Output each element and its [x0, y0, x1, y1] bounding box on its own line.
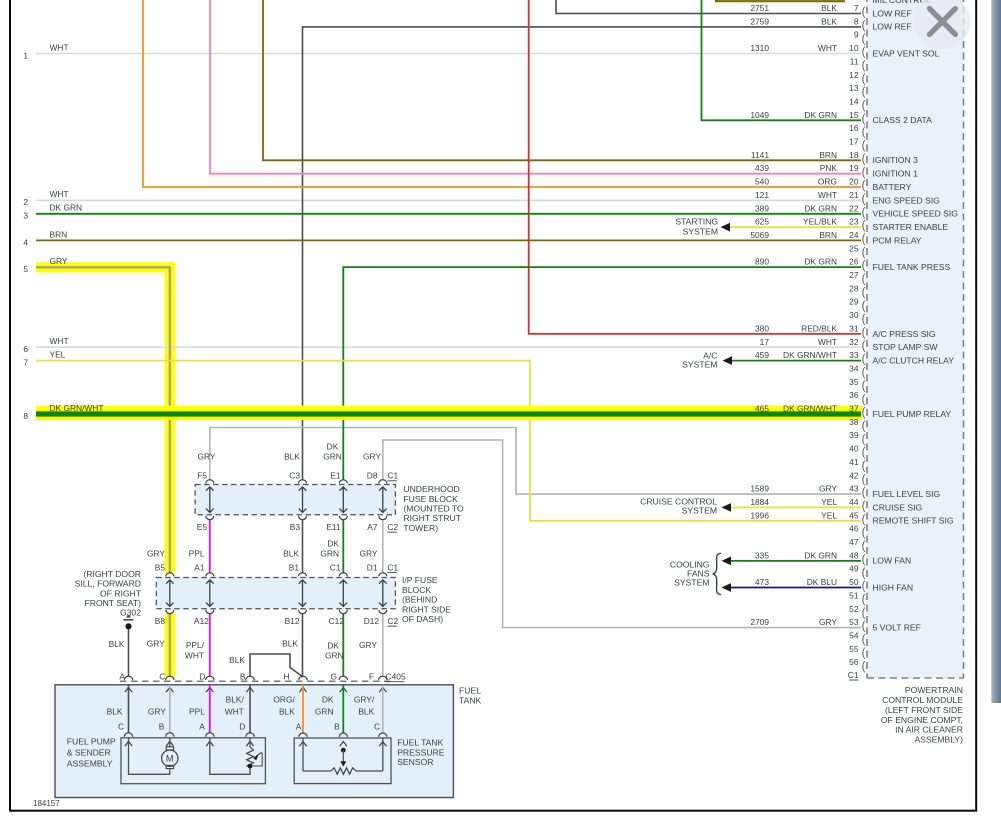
- svg-text:GRY: GRY: [148, 707, 166, 717]
- svg-text:20: 20: [849, 177, 859, 187]
- svg-text:459: 459: [755, 350, 769, 360]
- svg-text:B: B: [240, 672, 246, 682]
- svg-text:IN AIR CLEANER: IN AIR CLEANER: [895, 725, 963, 735]
- svg-text:FUEL LEVEL SIG: FUEL LEVEL SIG: [873, 489, 941, 499]
- svg-text:OF RIGHT: OF RIGHT: [100, 588, 142, 598]
- svg-text:YEL: YEL: [50, 349, 66, 359]
- svg-text:C1: C1: [387, 471, 398, 481]
- svg-text:5: 5: [23, 264, 28, 274]
- svg-text:(MOUNTED TO: (MOUNTED TO: [403, 504, 464, 514]
- svg-text:(: (: [862, 87, 866, 99]
- svg-text:(LEFT FRONT SIDE: (LEFT FRONT SIDE: [885, 705, 963, 715]
- svg-text:OF DASH): OF DASH): [402, 614, 443, 624]
- svg-text:ENG SPEED SIG: ENG SPEED SIG: [873, 195, 941, 205]
- svg-text:STARTING: STARTING: [675, 217, 718, 227]
- svg-text:(: (: [862, 581, 866, 593]
- svg-text:(: (: [862, 180, 866, 192]
- svg-text:B: B: [159, 722, 165, 732]
- svg-text:55: 55: [849, 644, 859, 654]
- svg-text:50: 50: [849, 577, 859, 587]
- svg-text:27: 27: [849, 270, 859, 280]
- svg-text:(: (: [862, 407, 866, 419]
- svg-text:WHT: WHT: [225, 707, 244, 717]
- svg-text:24: 24: [849, 230, 859, 240]
- svg-text:GRY: GRY: [198, 452, 216, 462]
- svg-text:BLK: BLK: [283, 549, 299, 559]
- svg-text:473: 473: [755, 577, 769, 587]
- svg-text:(: (: [862, 234, 866, 246]
- svg-text:439: 439: [755, 163, 769, 173]
- svg-text:CLASS 2 DATA: CLASS 2 DATA: [873, 115, 933, 125]
- svg-text:BRN: BRN: [50, 229, 68, 239]
- svg-text:BLK: BLK: [821, 3, 837, 13]
- svg-text:F: F: [369, 672, 374, 682]
- svg-text:BLK: BLK: [229, 655, 245, 665]
- svg-text:(: (: [862, 501, 866, 513]
- svg-text:(: (: [862, 220, 866, 232]
- svg-text:(: (: [862, 47, 866, 59]
- svg-text:E5: E5: [197, 522, 208, 532]
- svg-text:DK GRN: DK GRN: [804, 203, 837, 213]
- svg-text:C405: C405: [386, 672, 406, 682]
- svg-text:(: (: [862, 461, 866, 473]
- svg-text:ASSEMBLY: ASSEMBLY: [67, 759, 113, 769]
- svg-text:B: B: [334, 722, 340, 732]
- svg-text:13: 13: [849, 83, 859, 93]
- svg-text:OF ENGINE COMPT,: OF ENGINE COMPT,: [881, 715, 963, 725]
- svg-text:2751: 2751: [750, 3, 769, 13]
- svg-text:335: 335: [755, 550, 769, 560]
- svg-text:ORG: ORG: [818, 177, 837, 187]
- svg-text:CONTROL MODULE: CONTROL MODULE: [882, 695, 963, 705]
- svg-text:BLK: BLK: [358, 707, 374, 717]
- svg-text:FUEL: FUEL: [459, 686, 481, 696]
- svg-text:RED/BLK: RED/BLK: [801, 323, 837, 333]
- svg-text:DK GRN/WHT: DK GRN/WHT: [783, 404, 837, 414]
- svg-text:PRESSURE: PRESSURE: [397, 747, 445, 757]
- svg-text:FUEL TANK: FUEL TANK: [397, 737, 443, 747]
- svg-text:SYSTEM: SYSTEM: [674, 577, 709, 587]
- svg-text:DK: DK: [327, 441, 339, 451]
- svg-text:LOW REF: LOW REF: [873, 22, 912, 32]
- svg-text:H: H: [283, 672, 289, 682]
- svg-text:B12: B12: [285, 616, 300, 626]
- svg-text:ASSEMBLY): ASSEMBLY): [914, 735, 963, 745]
- svg-text:BRN: BRN: [819, 150, 837, 160]
- svg-text:(: (: [862, 380, 866, 392]
- svg-text:1310: 1310: [750, 43, 769, 53]
- svg-text:(: (: [862, 113, 866, 125]
- svg-text:(: (: [862, 20, 866, 32]
- svg-text:9: 9: [854, 30, 859, 40]
- svg-text:FUEL PUMP RELAY: FUEL PUMP RELAY: [873, 409, 952, 419]
- svg-text:33: 33: [849, 350, 859, 360]
- svg-text:YEL: YEL: [821, 510, 837, 520]
- svg-text:1884: 1884: [750, 497, 769, 507]
- svg-text:BLK: BLK: [284, 452, 300, 462]
- svg-text:C: C: [118, 722, 124, 732]
- svg-text:GRY: GRY: [147, 639, 165, 649]
- svg-text:22: 22: [849, 203, 859, 213]
- svg-text:BRN: BRN: [819, 230, 837, 240]
- svg-text:PCM RELAY: PCM RELAY: [873, 235, 922, 245]
- svg-text:DK GRN/WHT: DK GRN/WHT: [50, 403, 104, 413]
- svg-text:7: 7: [854, 3, 859, 13]
- svg-text:34: 34: [849, 364, 859, 374]
- svg-text:B8: B8: [155, 616, 166, 626]
- svg-text:WHT: WHT: [818, 43, 837, 53]
- svg-text:35: 35: [849, 377, 859, 387]
- svg-text:380: 380: [755, 323, 769, 333]
- svg-text:F5: F5: [197, 471, 207, 481]
- svg-text:LOW FAN: LOW FAN: [873, 556, 912, 566]
- svg-text:DK: DK: [322, 695, 334, 705]
- svg-text:(: (: [862, 194, 866, 206]
- svg-text:52: 52: [849, 604, 859, 614]
- svg-text:G302: G302: [120, 608, 141, 618]
- svg-text:BLK: BLK: [821, 16, 837, 26]
- svg-text:17: 17: [760, 337, 770, 347]
- svg-text:GRN: GRN: [325, 651, 344, 661]
- svg-text:(: (: [862, 434, 866, 446]
- svg-text:BLK: BLK: [279, 707, 295, 717]
- svg-text:(: (: [862, 634, 866, 646]
- svg-text:38: 38: [849, 417, 859, 427]
- svg-text:GRY: GRY: [50, 256, 68, 266]
- svg-text:WHT: WHT: [185, 651, 204, 661]
- svg-text:37: 37: [849, 404, 859, 414]
- svg-text:WHT: WHT: [818, 190, 837, 200]
- svg-text:23: 23: [849, 217, 859, 227]
- svg-text:3: 3: [23, 211, 28, 221]
- svg-text:(: (: [862, 287, 866, 299]
- svg-text:IGNITION 3: IGNITION 3: [873, 155, 919, 165]
- svg-text:TOWER): TOWER): [403, 523, 438, 533]
- svg-text:C12: C12: [329, 616, 345, 626]
- svg-text:A: A: [119, 672, 125, 682]
- svg-text:(: (: [862, 367, 866, 379]
- svg-text:(: (: [862, 567, 866, 579]
- svg-text:BLK: BLK: [282, 639, 298, 649]
- svg-text:& SENDER: & SENDER: [67, 747, 111, 757]
- svg-text:48: 48: [849, 550, 859, 560]
- svg-text:A: A: [296, 722, 302, 732]
- svg-text:(: (: [862, 487, 866, 499]
- svg-text:389: 389: [755, 203, 769, 213]
- svg-text:(: (: [862, 541, 866, 553]
- svg-text:GRY: GRY: [147, 549, 165, 559]
- svg-text:(: (: [862, 7, 866, 19]
- svg-text:GRY: GRY: [359, 640, 377, 650]
- svg-text:VEHICLE SPEED SIG: VEHICLE SPEED SIG: [873, 209, 959, 219]
- svg-text:8: 8: [23, 411, 28, 421]
- svg-text:17: 17: [849, 137, 859, 147]
- svg-text:(: (: [862, 327, 866, 339]
- svg-text:M: M: [166, 754, 174, 764]
- svg-text:(RIGHT DOOR: (RIGHT DOOR: [83, 569, 141, 579]
- svg-text:36: 36: [849, 390, 859, 400]
- svg-text:(: (: [862, 354, 866, 366]
- svg-text:1: 1: [23, 50, 28, 60]
- svg-text:25: 25: [849, 243, 859, 253]
- svg-text:SYSTEM: SYSTEM: [683, 227, 718, 237]
- svg-text:39: 39: [849, 430, 859, 440]
- svg-text:26: 26: [849, 257, 859, 267]
- svg-text:PNK: PNK: [820, 163, 838, 173]
- svg-text:BATTERY: BATTERY: [873, 182, 912, 192]
- svg-text:WHT: WHT: [50, 189, 69, 199]
- svg-text:A/C PRESS SIG: A/C PRESS SIG: [873, 329, 936, 339]
- svg-text:BLK: BLK: [107, 707, 123, 717]
- svg-text:C1: C1: [387, 562, 398, 572]
- svg-text:IGNITION 1: IGNITION 1: [873, 169, 919, 179]
- svg-text:UNDERHOOD: UNDERHOOD: [403, 484, 459, 494]
- svg-text:1589: 1589: [750, 484, 769, 494]
- svg-text:C1: C1: [848, 670, 859, 680]
- svg-text:TANK: TANK: [459, 696, 482, 706]
- svg-text:(: (: [862, 274, 866, 286]
- svg-text:DK GRN: DK GRN: [804, 257, 837, 267]
- svg-text:465: 465: [755, 404, 769, 414]
- svg-text:RIGHT SIDE: RIGHT SIDE: [402, 604, 451, 614]
- svg-text:4: 4: [23, 237, 28, 247]
- svg-text:WHT: WHT: [818, 337, 837, 347]
- svg-text:5 VOLT REF: 5 VOLT REF: [873, 623, 921, 633]
- svg-text:EVAP VENT SOL: EVAP VENT SOL: [873, 48, 940, 58]
- svg-text:D8: D8: [367, 471, 378, 481]
- svg-text:GRY/: GRY/: [354, 695, 375, 705]
- svg-text:C2: C2: [387, 522, 398, 532]
- svg-text:(: (: [862, 247, 866, 259]
- svg-text:(: (: [862, 73, 866, 85]
- svg-text:40: 40: [849, 444, 859, 454]
- svg-text:SYSTEM: SYSTEM: [682, 360, 717, 370]
- svg-text:2759: 2759: [750, 16, 769, 26]
- svg-text:D12: D12: [364, 616, 380, 626]
- svg-text:FUEL TANK PRESS: FUEL TANK PRESS: [873, 262, 951, 272]
- svg-text:(: (: [862, 647, 866, 659]
- svg-text:CRUISE SIG: CRUISE SIG: [873, 502, 923, 512]
- svg-text:(: (: [862, 100, 866, 112]
- svg-text:LOW REF: LOW REF: [873, 8, 912, 18]
- svg-text:(: (: [862, 153, 866, 165]
- svg-text:15: 15: [849, 110, 859, 120]
- svg-text:SILL, FORWARD: SILL, FORWARD: [75, 579, 141, 589]
- svg-text:2: 2: [23, 197, 28, 207]
- svg-text:C3: C3: [289, 471, 300, 481]
- svg-text:30: 30: [849, 310, 859, 320]
- svg-text:28: 28: [849, 283, 859, 293]
- svg-text:(: (: [862, 661, 866, 673]
- svg-text:BLOCK: BLOCK: [402, 585, 431, 595]
- svg-text:8: 8: [854, 16, 859, 26]
- svg-text:G: G: [330, 672, 337, 682]
- svg-text:ORG/: ORG/: [273, 695, 295, 705]
- svg-text:41: 41: [849, 457, 859, 467]
- svg-text:RIGHT STRUT: RIGHT STRUT: [403, 513, 461, 523]
- svg-text:DK: DK: [327, 539, 339, 549]
- svg-text:121: 121: [755, 190, 769, 200]
- svg-text:GRN: GRN: [323, 452, 342, 462]
- svg-text:DK GRN: DK GRN: [804, 550, 837, 560]
- svg-text:FUEL PUMP: FUEL PUMP: [67, 736, 116, 746]
- svg-text:FRONT SEAT): FRONT SEAT): [85, 598, 142, 608]
- svg-text:(: (: [862, 207, 866, 219]
- svg-text:42: 42: [849, 470, 859, 480]
- svg-text:DK: DK: [327, 641, 339, 651]
- svg-text:31: 31: [849, 323, 859, 333]
- svg-text:C1: C1: [330, 562, 341, 572]
- svg-text:I/P FUSE: I/P FUSE: [402, 575, 438, 585]
- svg-text:7: 7: [23, 357, 28, 367]
- svg-text:A1: A1: [194, 562, 205, 572]
- svg-text:SENSOR: SENSOR: [397, 757, 433, 767]
- svg-text:46: 46: [849, 524, 859, 534]
- svg-text:(: (: [862, 127, 866, 139]
- svg-text:D1: D1: [367, 562, 378, 572]
- svg-text:(: (: [862, 554, 866, 566]
- svg-text:(: (: [862, 527, 866, 539]
- svg-text:C2: C2: [387, 616, 398, 626]
- svg-text:29: 29: [849, 297, 859, 307]
- svg-text:GRY: GRY: [819, 484, 837, 494]
- svg-text:(: (: [862, 33, 866, 45]
- svg-text:184157: 184157: [33, 799, 60, 808]
- svg-text:B1: B1: [289, 562, 300, 572]
- svg-text:51: 51: [849, 590, 859, 600]
- svg-text:D: D: [239, 722, 245, 732]
- svg-text:56: 56: [849, 657, 859, 667]
- svg-text:45: 45: [849, 510, 859, 520]
- svg-text:(: (: [862, 260, 866, 272]
- svg-text:14: 14: [849, 97, 859, 107]
- svg-text:DK GRN/WHT: DK GRN/WHT: [783, 350, 837, 360]
- svg-text:16: 16: [849, 123, 859, 133]
- svg-text:STARTER ENABLE: STARTER ENABLE: [873, 222, 949, 232]
- svg-text:E1: E1: [330, 471, 341, 481]
- svg-text:11: 11: [850, 56, 859, 66]
- svg-text:GRN: GRN: [320, 549, 339, 559]
- svg-text:GRY: GRY: [360, 549, 378, 559]
- svg-text:PPL/: PPL/: [186, 640, 205, 650]
- svg-text:21: 21: [849, 190, 859, 200]
- svg-text:C: C: [374, 722, 380, 732]
- svg-text:5069: 5069: [750, 230, 769, 240]
- svg-text:47: 47: [849, 537, 859, 547]
- svg-text:E11: E11: [326, 522, 341, 532]
- svg-text:GRY: GRY: [819, 617, 837, 627]
- svg-text:32: 32: [849, 337, 859, 347]
- svg-text:B5: B5: [155, 562, 166, 572]
- svg-text:1141: 1141: [751, 150, 769, 160]
- svg-text:BLK/: BLK/: [226, 695, 245, 705]
- svg-text:A12: A12: [194, 616, 209, 626]
- svg-text:19: 19: [849, 163, 859, 173]
- svg-text:(BEHIND: (BEHIND: [402, 595, 437, 605]
- svg-text:(: (: [862, 474, 866, 486]
- svg-text:A/C CLUTCH RELAY: A/C CLUTCH RELAY: [873, 356, 955, 366]
- svg-text:18: 18: [849, 150, 859, 160]
- svg-text:49: 49: [849, 564, 859, 574]
- svg-text:WHT: WHT: [50, 42, 69, 52]
- svg-text:890: 890: [755, 257, 769, 267]
- svg-text:HIGH FAN: HIGH FAN: [873, 582, 914, 592]
- svg-text:A7: A7: [367, 522, 378, 532]
- svg-text:YEL: YEL: [821, 497, 837, 507]
- svg-text:WHT: WHT: [50, 336, 69, 346]
- svg-text:(: (: [862, 60, 866, 72]
- svg-text:SYSTEM: SYSTEM: [682, 505, 717, 515]
- svg-text:(: (: [862, 167, 866, 179]
- svg-text:43: 43: [849, 484, 859, 494]
- svg-text:YEL/BLK: YEL/BLK: [803, 217, 837, 227]
- svg-text:POWERTRAIN: POWERTRAIN: [905, 685, 963, 695]
- svg-text:44: 44: [849, 497, 859, 507]
- svg-text:(: (: [862, 340, 866, 352]
- svg-text:625: 625: [755, 217, 769, 227]
- svg-text:DK BLU: DK BLU: [807, 577, 837, 587]
- svg-text:2709: 2709: [750, 617, 769, 627]
- svg-text:REMOTE SHIFT SIG: REMOTE SHIFT SIG: [873, 516, 954, 526]
- svg-text:BLK: BLK: [109, 639, 125, 649]
- svg-text:(: (: [862, 140, 866, 152]
- svg-text:(: (: [862, 447, 866, 459]
- svg-text:6: 6: [23, 344, 28, 354]
- svg-text:53: 53: [849, 617, 859, 627]
- svg-text:(: (: [862, 514, 866, 526]
- svg-text:(: (: [862, 594, 866, 606]
- svg-text:12: 12: [849, 70, 859, 80]
- svg-text:GRN: GRN: [315, 707, 334, 717]
- svg-text:FUSE BLOCK: FUSE BLOCK: [403, 494, 458, 504]
- svg-text:10: 10: [849, 43, 859, 53]
- svg-text:A: A: [199, 722, 205, 732]
- svg-text:D: D: [199, 672, 205, 682]
- svg-text:1996: 1996: [750, 510, 769, 520]
- svg-text:PPL: PPL: [189, 707, 205, 717]
- svg-text:DK GRN: DK GRN: [50, 203, 83, 213]
- svg-text:(: (: [862, 607, 866, 619]
- svg-text:(: (: [862, 314, 866, 326]
- svg-text:DK GRN: DK GRN: [804, 110, 837, 120]
- svg-text:(: (: [862, 300, 866, 312]
- svg-text:(: (: [862, 420, 866, 432]
- svg-text:STOP LAMP SW: STOP LAMP SW: [873, 342, 939, 352]
- svg-text:1049: 1049: [750, 110, 769, 120]
- svg-text:C: C: [159, 672, 165, 682]
- svg-text:PPL: PPL: [189, 549, 205, 559]
- svg-text:540: 540: [755, 177, 769, 187]
- svg-text:(: (: [862, 394, 866, 406]
- svg-text:B3: B3: [290, 522, 301, 532]
- svg-text:GRY: GRY: [363, 452, 381, 462]
- svg-text:(: (: [862, 621, 866, 633]
- svg-text:54: 54: [849, 631, 859, 641]
